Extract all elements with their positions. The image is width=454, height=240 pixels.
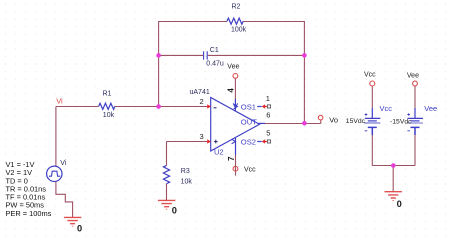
svg-text:100k: 100k — [231, 27, 247, 34]
svg-text:6: 6 — [266, 110, 270, 119]
svg-text:0: 0 — [397, 199, 402, 209]
svg-text:15Vdc: 15Vdc — [346, 118, 366, 125]
svg-text:PER = 100ms: PER = 100ms — [6, 209, 52, 218]
svg-text:0: 0 — [77, 224, 82, 234]
svg-text:Vcc: Vcc — [244, 166, 256, 173]
svg-text:OS1: OS1 — [241, 102, 256, 111]
svg-text:uA741: uA741 — [190, 89, 210, 96]
svg-text:-15Vdc: -15Vdc — [390, 118, 412, 125]
svg-text:Vee: Vee — [424, 104, 437, 113]
svg-text:0.47u: 0.47u — [206, 61, 224, 68]
svg-text:R1: R1 — [103, 91, 112, 98]
svg-text:3: 3 — [200, 132, 204, 141]
svg-text:Vcc: Vcc — [364, 72, 376, 79]
svg-text:R3: R3 — [181, 168, 190, 175]
svg-text:1: 1 — [266, 94, 270, 103]
svg-text:Vcc: Vcc — [380, 104, 393, 113]
svg-text:OS2: OS2 — [241, 137, 256, 146]
svg-text:Vo: Vo — [329, 115, 338, 124]
svg-text:2: 2 — [200, 97, 204, 106]
svg-text:U2: U2 — [214, 147, 224, 156]
svg-text:10k: 10k — [181, 179, 193, 186]
svg-text:Vee: Vee — [407, 73, 419, 80]
svg-text:Vi: Vi — [60, 160, 67, 167]
svg-text:R2: R2 — [232, 4, 241, 11]
svg-text:OUT: OUT — [241, 118, 257, 127]
svg-text:Vi: Vi — [56, 96, 63, 105]
svg-text:0: 0 — [172, 206, 177, 216]
svg-text:C1: C1 — [210, 47, 219, 54]
svg-text:4: 4 — [227, 88, 236, 93]
svg-text:5: 5 — [266, 128, 270, 137]
svg-text:Vee: Vee — [227, 64, 239, 71]
svg-text:7: 7 — [227, 156, 236, 161]
svg-text:10k: 10k — [103, 112, 115, 119]
